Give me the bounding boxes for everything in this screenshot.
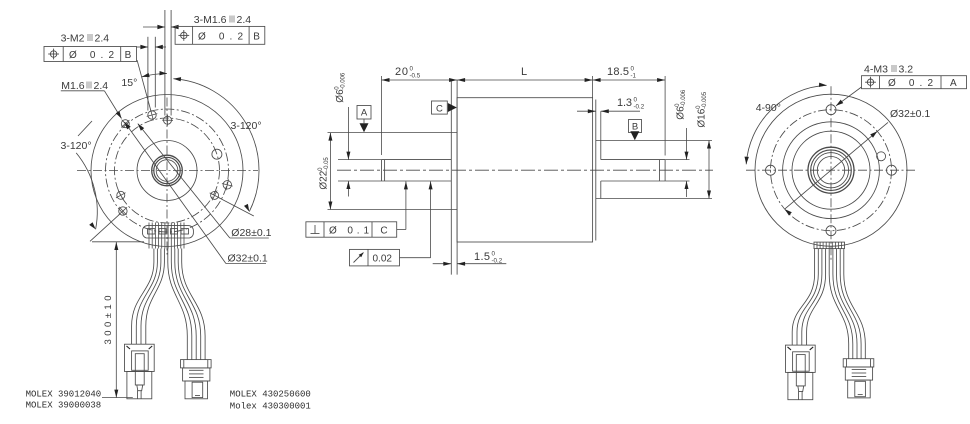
Ø6 left label	[334, 72, 346, 103]
rear inner circle	[792, 131, 870, 209]
svg-text:-0.05: -0.05	[324, 157, 330, 171]
svg-text:B: B	[125, 50, 132, 61]
rear end cap line	[595, 100, 597, 241]
svg-text:MOLEX 430250600: MOLEX 430250600	[230, 390, 311, 400]
M2 extension line pair	[147, 37, 149, 111]
dim line for 3-M2 frame	[137, 46, 148, 48]
frame position Ø0.2 A	[862, 76, 967, 89]
motor body rectangle	[457, 98, 592, 242]
right view crimp comb	[814, 242, 845, 249]
svg-text:2.4: 2.4	[94, 80, 109, 92]
dim line for 3-M1.6 frame	[143, 26, 165, 28]
capsule pin 3	[171, 229, 178, 234]
wire bundle left view	[132, 249, 206, 360]
svg-text:Ø22: Ø22	[319, 170, 330, 189]
svg-text:4-M3: 4-M3	[864, 64, 888, 76]
svg-text:2.4: 2.4	[95, 33, 110, 45]
15 deg arc dimension	[142, 74, 167, 77]
connector MOLEX receptacle (right view, right)	[843, 359, 874, 398]
Ø6 right label	[675, 89, 687, 120]
svg-text:Ø 0.2: Ø 0.2	[888, 78, 933, 89]
svg-text:-1: -1	[631, 73, 637, 80]
left shaft edge extension lines	[338, 159, 382, 161]
radial line through hole G extended	[219, 198, 254, 217]
capsule pin 1	[148, 229, 156, 234]
svg-text:M1.6: M1.6	[61, 80, 85, 92]
connector socket U	[793, 352, 810, 371]
connector MOLEX plug (left view, left)	[125, 344, 155, 399]
Ø16 dimension line	[708, 141, 710, 199]
rear hub rings	[808, 147, 854, 193]
top dimension line 20 / L / 18.5	[382, 79, 666, 81]
M3 hole bottom	[826, 226, 836, 236]
svg-text:-0.2: -0.2	[634, 104, 645, 111]
M3 hole top	[826, 105, 836, 115]
svg-text:-0.2: -0.2	[492, 258, 503, 265]
plain hole upper-right	[212, 149, 222, 159]
left shaft Ø6	[382, 159, 452, 161]
Ø22 tolerance label	[318, 157, 330, 190]
dimension 300±10	[92, 242, 144, 398]
connector latch tongue	[796, 355, 805, 386]
capsule pin 2	[159, 229, 166, 234]
connector lower body	[185, 381, 208, 399]
main centerline	[337, 169, 713, 171]
connector plug body flange	[125, 344, 155, 371]
left 3-120 deg arc	[76, 153, 97, 229]
tapped hole D lower-left	[117, 191, 125, 199]
svg-text:Molex 430300001: Molex 430300001	[230, 402, 311, 412]
connector plug body flange	[786, 345, 816, 372]
capsule pin 4	[181, 229, 189, 234]
connector lower body	[127, 372, 152, 399]
connector socket U	[132, 351, 149, 370]
front flange plate	[450, 80, 452, 275]
frame leader to shaft	[397, 229, 406, 231]
leader Ø28±0.1	[138, 124, 230, 238]
svg-text:18.5: 18.5	[607, 66, 629, 78]
right shaft Ø6	[601, 159, 665, 161]
frame position Ø0.2 B (for M2)	[44, 47, 137, 62]
connector lower body	[848, 380, 871, 398]
bolt circle Ø32 (dash-dot)	[106, 109, 229, 232]
svg-text:B: B	[632, 122, 638, 133]
Ø22 dimension line	[329, 133, 331, 210]
right view: motor rear face	[745, 64, 967, 263]
svg-text:Ø6: Ø6	[676, 106, 687, 120]
datum A	[357, 106, 371, 120]
svg-text:-0.006: -0.006	[340, 72, 346, 90]
svg-text:0: 0	[634, 97, 638, 104]
leader Ø32±0.1	[125, 122, 226, 264]
tapped hole M1.6 top (C)	[164, 116, 172, 124]
dim 1.5 0/-0.2	[433, 263, 452, 265]
plain small hole	[877, 152, 886, 161]
connector main body	[845, 367, 872, 380]
right shaft extension lines	[665, 159, 689, 161]
svg-text:4-90°: 4-90°	[756, 102, 781, 114]
svg-text:Ø32±0.1: Ø32±0.1	[228, 253, 268, 265]
connector main body	[183, 368, 210, 381]
svg-text:MOLEX 39000038: MOLEX 39000038	[26, 400, 102, 410]
tapped hole F right	[223, 181, 231, 189]
svg-text:3-120°: 3-120°	[61, 140, 92, 152]
svg-text:B: B	[253, 32, 260, 43]
vertical centerline	[166, 98, 168, 255]
svg-text:Ø 0.1: Ø 0.1	[329, 226, 369, 237]
svg-text:2.4: 2.4	[237, 14, 252, 26]
svg-text:1.3: 1.3	[617, 97, 632, 109]
left view: motor front face	[44, 10, 272, 265]
4-90 deg arc	[746, 85, 826, 164]
outer circle (motor body Ø40)	[91, 95, 243, 247]
wire exit capsule	[143, 223, 194, 249]
frame leader to shaft 2	[400, 257, 431, 259]
frame position Ø0.2 B (for M1.6)	[175, 26, 265, 44]
svg-text:3-120°: 3-120°	[231, 120, 262, 132]
tapped hole M1.6 single (A)	[121, 120, 129, 128]
svg-text:C: C	[380, 226, 387, 237]
svg-text:3-M1.6: 3-M1.6	[194, 14, 227, 26]
Ø16 label	[696, 91, 708, 127]
svg-text:Ø 0.2: Ø 0.2	[69, 50, 114, 61]
connector collar	[843, 359, 874, 367]
svg-text:0: 0	[492, 251, 496, 258]
rear boss Ø16 lines + extension	[596, 140, 712, 142]
horizontal centerline	[77, 170, 258, 172]
datum B	[629, 120, 642, 133]
front boss circle Ø16	[137, 141, 197, 201]
leader from frame to M3 hole	[836, 87, 862, 106]
right 3-120 deg arc	[173, 79, 259, 212]
svg-text:L: L	[521, 66, 527, 78]
leader stub near left arc	[78, 121, 92, 136]
bolt circle Ø32 dash-dot	[771, 110, 892, 231]
svg-text:20: 20	[395, 66, 408, 78]
connector lower body	[788, 372, 813, 399]
Ø6 left dimension arrows	[347, 107, 349, 160]
tapped hole M2 top (B)	[148, 111, 156, 119]
rear face circle	[783, 122, 880, 219]
connector MOLEX receptacle (left view, right)	[181, 360, 212, 399]
crimp comb	[148, 223, 150, 249]
svg-text:0.02: 0.02	[373, 254, 393, 265]
M3 hole left	[766, 165, 776, 175]
right view wire bundle	[792, 249, 865, 359]
svg-text:3.2: 3.2	[899, 64, 914, 76]
horizontal centerline	[746, 169, 916, 171]
svg-text:A: A	[950, 78, 957, 89]
svg-text:0: 0	[410, 66, 414, 73]
svg-text:MOLEX 39012040: MOLEX 39012040	[26, 389, 102, 399]
M1.6 extension line pair	[164, 10, 166, 116]
vertical centerline	[830, 86, 832, 262]
Ø6 right dimension arrows	[686, 128, 688, 160]
svg-text:-0.5: -0.5	[410, 73, 421, 80]
svg-text:C: C	[436, 104, 443, 115]
datum C	[432, 101, 448, 114]
M3 hole right	[887, 165, 897, 175]
Ø32 diameter dimension line diagonal	[785, 122, 888, 209]
svg-text:1.5: 1.5	[474, 251, 490, 263]
tapped hole G lower-right	[211, 191, 219, 199]
svg-text:Ø6: Ø6	[335, 89, 346, 103]
radial line through hole B	[137, 60, 151, 111]
dim 1.3 0/-0.2	[577, 110, 596, 112]
shaft hub rings	[152, 155, 183, 186]
outer circle	[755, 94, 907, 246]
connector collar	[181, 360, 212, 368]
svg-text:A: A	[361, 108, 368, 119]
svg-text:Ø32±0.1: Ø32±0.1	[890, 108, 930, 120]
Ø22 extension lines	[328, 132, 458, 134]
svg-text:15°: 15°	[121, 77, 137, 89]
connector latch tongue	[135, 354, 144, 385]
svg-text:Ø16: Ø16	[697, 108, 708, 127]
svg-text:0: 0	[631, 66, 635, 73]
svg-text:3-M2: 3-M2	[61, 33, 85, 45]
frame circular runout 0.02	[350, 249, 400, 266]
frame perpendicularity Ø0.1 C	[306, 222, 397, 237]
radial line through hole E extended	[90, 214, 120, 242]
middle view: motor side section	[306, 66, 713, 275]
svg-text:-0.006: -0.006	[681, 89, 687, 107]
connector MOLEX plug (right view, left)	[786, 345, 816, 400]
svg-text:-0.005: -0.005	[702, 91, 708, 109]
bolt circle Ø28 (dash-dot)	[115, 118, 220, 223]
svg-text:Ø28±0.1: Ø28±0.1	[231, 227, 271, 239]
svg-text:Ø 0.2: Ø 0.2	[198, 32, 243, 43]
tapped hole E lower-left outer	[119, 207, 127, 215]
